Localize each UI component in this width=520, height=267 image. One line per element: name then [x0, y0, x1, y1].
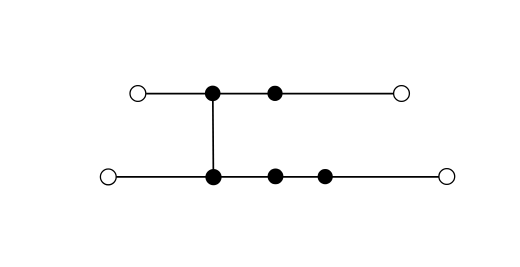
junction dot bottom 2 — [268, 169, 284, 185]
junction dot bottom 1 — [205, 169, 221, 185]
terminal T2 top-right open circle — [394, 86, 410, 102]
terminal T1 top-left open circle — [130, 86, 146, 102]
terminal T4 bottom-right open circle — [439, 169, 455, 185]
terminal T3 bottom-left open circle — [100, 169, 116, 185]
junction dot bottom 3 — [318, 169, 333, 184]
junction dot top 1 — [205, 86, 221, 102]
wire vertical connector — [212, 94, 215, 178]
wire top horizontal — [146, 93, 393, 95]
wire bottom horizontal — [117, 176, 439, 178]
junction dot top 2 — [267, 86, 282, 101]
